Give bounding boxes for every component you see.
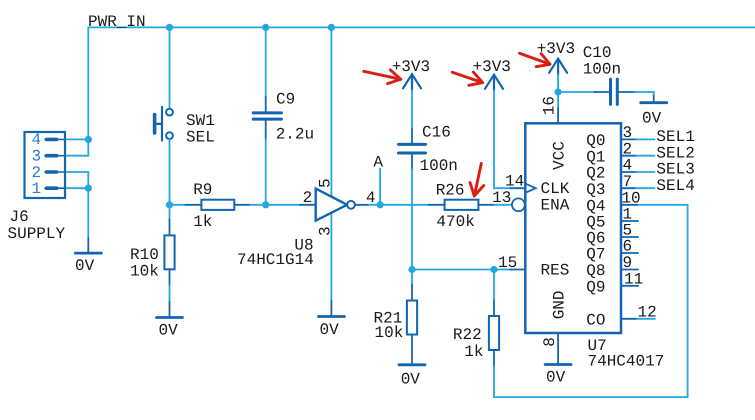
node junction dot J6 pin1 [85,185,92,192]
svg-text:Q1: Q1 [586,148,605,166]
red annotation arrow 3 [520,53,551,66]
wire J6 pin3 [65,155,88,157]
svg-text:12: 12 [638,303,657,321]
svg-text:PWR_IN: PWR_IN [88,13,146,31]
wire +3V3 3 down to pin16 [557,75,559,109]
node junction dot C9 row [262,201,269,208]
node junction dot RES R21 [408,266,415,273]
wire R21 top [411,270,413,285]
svg-text:+3V3: +3V3 [473,58,511,76]
svg-text:0V: 0V [642,110,662,128]
wire C10 to ground [635,92,654,96]
pin GND pin 8 [557,333,559,365]
wire R26 to ENA bubble [495,204,513,206]
power +3V3 symbol 1 [403,74,421,90]
power +3V3 symbol 2 [485,75,503,91]
wire +3V3 2 to CLK pin 14 [494,91,510,189]
pin Q6 stub [621,236,638,238]
svg-text:0V: 0V [546,369,566,387]
svg-text:2: 2 [623,140,633,158]
svg-text:Q8: Q8 [586,262,605,280]
pin numbers J6 4 3 2 1 [32,131,42,198]
svg-text:74HC4017: 74HC4017 [588,353,665,371]
red annotation arrow 2 [452,72,482,85]
wire pin16 stub [557,108,559,123]
pin Q8 stub [621,269,638,271]
wire C16 to RES row crossing main row [411,169,413,270]
ground 0V right of C10 [641,96,667,103]
ground 0V below J6 [75,238,101,253]
svg-text:Q9: Q9 [586,279,605,297]
svg-text:100n: 100n [420,157,458,175]
pin Q4 stub [621,204,637,206]
svg-text:SEL4: SEL4 [656,177,694,195]
svg-text:3: 3 [623,124,633,142]
svg-text:9: 9 [623,254,633,272]
wire RES pin stub [510,269,525,271]
pin Q2 stub and wire [621,171,636,173]
ground 0V below U7 [545,363,571,366]
svg-text:16: 16 [541,96,559,115]
svg-text:R9: R9 [193,181,212,199]
wire Q4 loop from R22 bottom to pin 10 [494,205,688,397]
svg-text:0V: 0V [75,257,95,275]
svg-text:J6: J6 [10,208,29,226]
svg-text:0V: 0V [401,371,421,389]
svg-text:2.2u: 2.2u [276,126,314,144]
svg-text:RES: RES [541,262,570,280]
capacitor C10 100n [595,79,635,104]
pin Q3 stub and wire [621,187,636,189]
wire R22 top [493,270,495,301]
ground 0V below R21 [399,350,425,365]
pin Q7 stub [621,252,638,254]
resistor R21 10k [407,285,417,351]
svg-text:GND: GND [550,290,568,319]
svg-text:470k: 470k [436,213,474,231]
svg-text:Q0: Q0 [586,132,605,150]
svg-text:CO: CO [586,312,605,330]
svg-text:Q7: Q7 [586,245,605,263]
resistor R22 1k [489,300,499,366]
wire +3V3 to C16 [411,90,413,129]
svg-text:CLK: CLK [541,180,570,198]
svg-text:SEL: SEL [186,128,215,146]
node junction dot rail C9 [262,24,269,31]
svg-text:C10: C10 [583,44,612,62]
wire J6 pin4 to rail branch [65,138,88,140]
power +3V3 symbol 3 [549,59,567,75]
resistor R26 470k [429,200,495,210]
wire RES row [412,269,510,271]
resistor R9 1k [186,200,251,210]
svg-text:Q3: Q3 [586,181,605,199]
svg-text:100n: 100n [583,61,621,79]
capacitor C9 2.2u [253,97,281,139]
svg-text:6: 6 [623,238,633,256]
resistor R10 10k [164,219,174,285]
wire rail to SW1 [169,27,171,108]
wire rail to C9 [265,27,267,97]
svg-text:3: 3 [32,148,42,166]
svg-text:SUPPLY: SUPPLY [8,225,66,243]
svg-text:15: 15 [498,254,517,272]
wire R9 to C9 junction to inverter input [250,204,300,206]
svg-text:3: 3 [316,226,334,236]
svg-text:R10: R10 [130,246,159,264]
wire J6 ground drop [87,188,89,238]
wire SW1 to R9 row [169,139,171,205]
wire R9 row left [170,204,186,206]
pin names Q0-Q9 CO [586,132,605,329]
wire J6 pin2 to down [65,172,88,188]
svg-text:10: 10 [621,189,640,207]
node junction dot RES R22 [490,266,497,273]
wire node A drop [379,169,381,205]
wire PWR_IN rail [88,26,755,28]
node junction dot rail SW1 [166,24,173,31]
node junction dot rail inverter [328,24,335,31]
node junction dot C10 branch [555,88,562,95]
pin Q5 stub [621,220,638,222]
svg-text:SEL1: SEL1 [656,128,694,146]
red annotation arrow 1 [364,70,401,84]
wire J6 pin1 [65,187,88,189]
svg-text:5: 5 [316,178,334,188]
wire CLK pin stub [510,187,525,189]
svg-text:C16: C16 [422,124,451,142]
svg-text:C9: C9 [276,91,295,109]
svg-text:10k: 10k [130,263,159,281]
svg-text:10k: 10k [375,324,404,342]
pin Q1 stub and wire [621,155,636,157]
pin Q0 stub and wire [621,138,636,140]
ground 0V below R10 [157,302,183,318]
connector J6 [25,132,66,198]
svg-text:R22: R22 [453,326,482,344]
svg-text:1k: 1k [464,343,483,361]
svg-text:VCC: VCC [550,141,568,170]
svg-text:0V: 0V [159,322,179,340]
pin Q9 stub [621,285,638,287]
red annotation arrow 4 [470,163,484,196]
node junction dot SW1 R9 [166,201,173,208]
svg-text:11: 11 [624,270,643,288]
pin CO stub and wire [621,318,637,320]
wire R10 bottom [169,285,171,302]
svg-text:1k: 1k [193,213,212,231]
op-amp U8 74HC1G14 inverter [300,189,369,221]
svg-text:13: 13 [492,189,511,207]
wire to C10 [558,91,594,93]
wire R10 top [169,205,171,220]
wire C9 to row [265,139,267,205]
svg-text:2: 2 [303,189,313,207]
svg-text:0V: 0V [320,321,340,339]
wire left vertical from rail to J6 pin3 [87,27,89,155]
svg-text:8: 8 [541,337,559,347]
capacitor C16 100n [399,129,426,170]
svg-text:A: A [373,154,383,172]
ground 0V below U8 [318,301,344,317]
IC U7 74HC4017 body [525,123,621,333]
node junction dot J6 pin4 [85,136,92,143]
pin ENA bubble [512,198,525,211]
node junction dot A [377,201,384,208]
svg-text:4: 4 [32,131,42,149]
wire U8 output row to R26 [369,204,429,206]
svg-text:R26: R26 [436,182,465,200]
pin CLK wedge [525,184,535,193]
svg-text:74HC1G14: 74HC1G14 [237,251,314,269]
svg-text:SEL2: SEL2 [656,144,694,162]
svg-text:+3V3: +3V3 [392,58,430,76]
svg-text:SW1: SW1 [186,112,215,130]
wire rail to inverter vertical [330,27,332,300]
switch SW1 SEL pushbutton [154,107,173,141]
svg-text:1: 1 [32,180,42,198]
svg-text:7: 7 [623,173,633,191]
svg-text:ENA: ENA [541,197,570,215]
